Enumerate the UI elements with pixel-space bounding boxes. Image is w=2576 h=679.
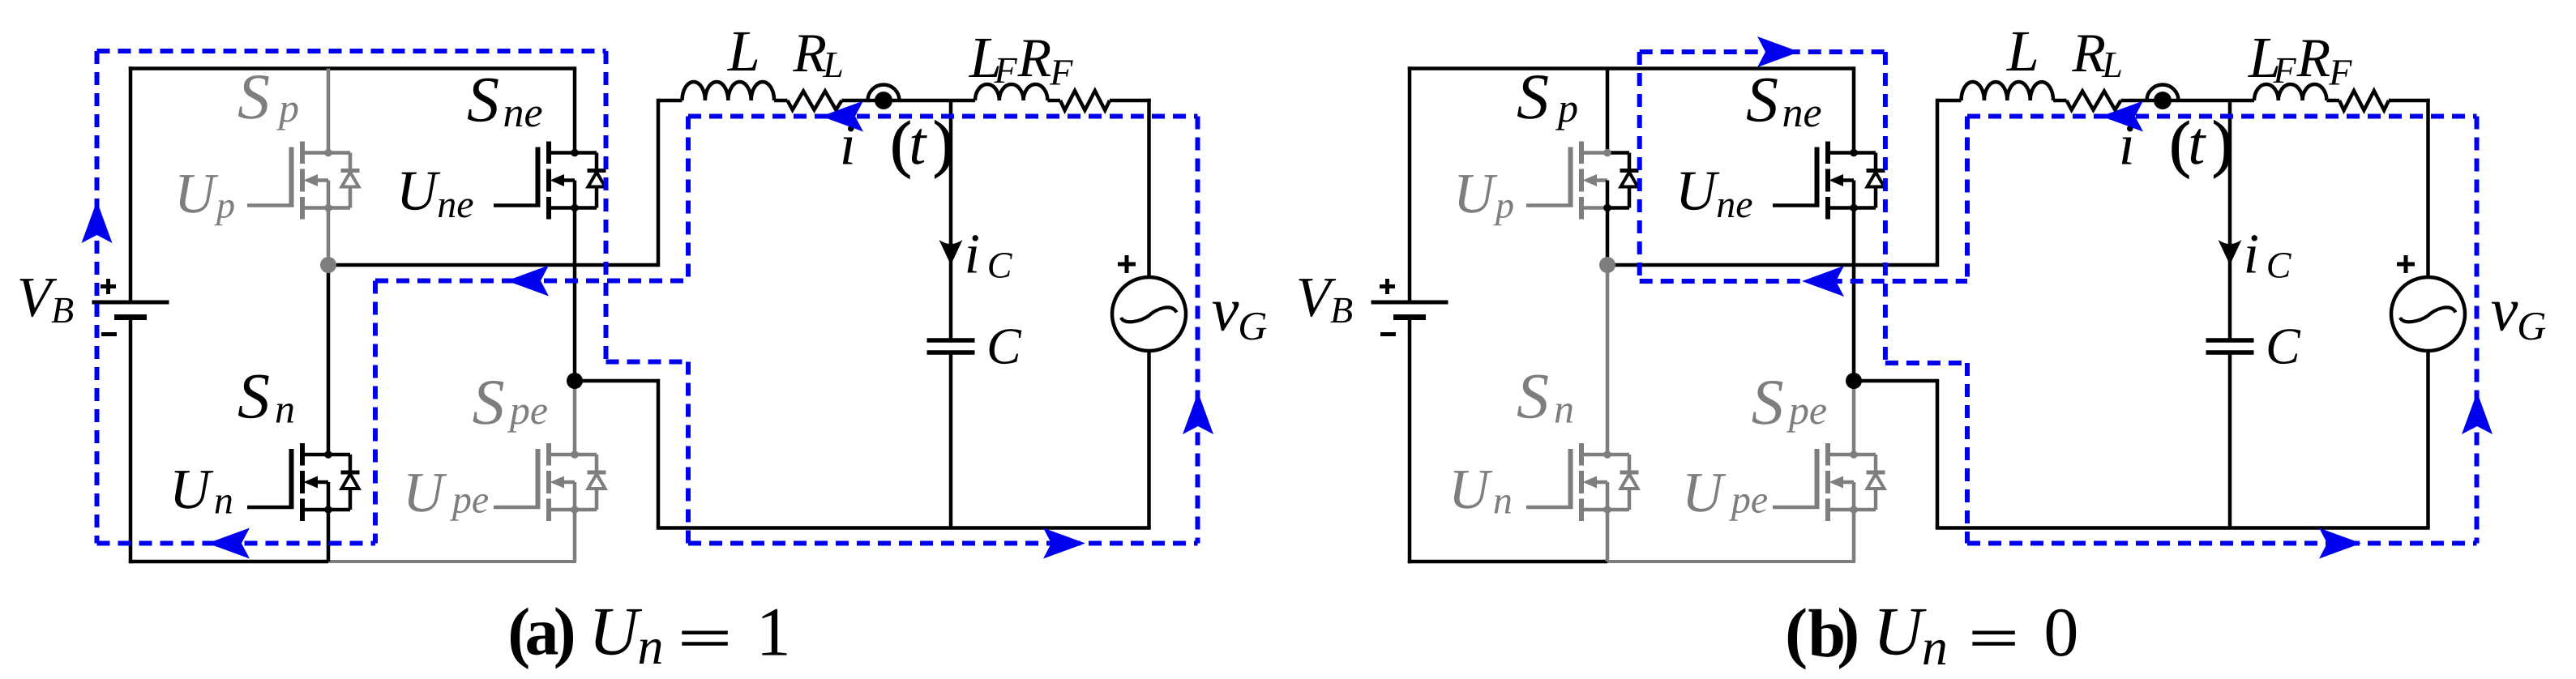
wire Sne source to node B [1852, 208, 1856, 382]
transistor Sne (on) [1773, 142, 1885, 220]
current path up vG [2475, 117, 2480, 544]
svg-text:n: n [638, 617, 664, 675]
svg-text:U: U [169, 459, 214, 521]
node A junction dot [1599, 257, 1615, 273]
current iC arrow [2219, 240, 2242, 265]
source vG [2391, 277, 2465, 351]
svg-text:F: F [2273, 49, 2297, 91]
wire [2053, 99, 2066, 103]
wire Spe source leg [573, 510, 577, 562]
svg-text:R: R [792, 22, 827, 83]
battery VB [1408, 66, 1412, 302]
current path bottom (to grid) [688, 541, 1198, 546]
wire Sne source to node B [573, 208, 577, 382]
svg-text:n: n [275, 386, 295, 432]
node B junction dot [567, 373, 583, 389]
arrow left under rail [2101, 101, 2143, 132]
capacitor C [927, 338, 975, 343]
arrow right bottom [1043, 528, 1085, 559]
battery VB [129, 66, 133, 302]
battery plus sign [101, 284, 116, 288]
svg-text:n: n [214, 479, 233, 522]
arrow up at vG [1183, 392, 1213, 434]
svg-text:ne: ne [437, 183, 473, 226]
svg-text:U: U [1453, 163, 1498, 225]
current path left along node A wire [375, 279, 688, 284]
current path bottom (to grid) [1967, 541, 2477, 546]
current sensor arc [868, 85, 900, 101]
svg-text:R: R [1017, 27, 1052, 88]
transistor Sne (on) [494, 142, 606, 220]
svg-text:B: B [51, 289, 74, 331]
wire Sn drain leg [1606, 265, 1610, 455]
svg-text:S: S [237, 361, 270, 433]
arrow left mid [1802, 266, 1844, 297]
svg-text:0: 0 [2043, 593, 2078, 671]
wire Spe drain leg [1852, 381, 1856, 455]
current path: battery branch (dashed) [95, 51, 100, 544]
svg-text:): ) [554, 595, 576, 670]
resistor RF [2339, 91, 2389, 110]
wire bridge bottom left [129, 560, 328, 564]
inductor LF [975, 84, 1047, 100]
wire top rail [1408, 66, 1855, 70]
wire [842, 99, 976, 103]
wire bridge bottom right (idle) [1607, 560, 1855, 563]
svg-text:S: S [1517, 361, 1549, 433]
wire Sn source leg [327, 510, 331, 562]
svg-text:n: n [1493, 479, 1513, 522]
current path down Sn [373, 281, 378, 544]
svg-text:L: L [2006, 19, 2039, 83]
caption (a) Un = 1 [507, 593, 791, 676]
current path up vG [1196, 117, 1200, 544]
arrow left mid [507, 266, 549, 297]
wire capacitor branch top [949, 100, 953, 340]
current path return under rail [688, 114, 1198, 119]
battery plus sign [1380, 284, 1395, 288]
svg-text:L: L [727, 19, 760, 83]
current iC arrow [939, 240, 963, 265]
svg-text:(: ( [1785, 596, 1808, 671]
svg-text:G: G [2517, 303, 2546, 348]
vG plus sign [1118, 263, 1136, 267]
svg-text:pe: pe [1729, 479, 1768, 522]
svg-text:t: t [2188, 109, 2206, 177]
wire Sp drain leg [1606, 69, 1610, 153]
wire [2326, 99, 2339, 103]
svg-text:C: C [2266, 318, 2301, 375]
svg-text:R: R [2296, 27, 2331, 88]
wire Sne drain leg [1852, 69, 1856, 153]
svg-text:i: i [965, 223, 980, 285]
arrow left bottom [208, 528, 250, 559]
current path top [97, 49, 606, 53]
svg-text:): ) [1837, 595, 1859, 670]
wire Spe drain leg [573, 381, 577, 455]
current path top freewheel [1640, 49, 1885, 54]
node B junction dot [1846, 373, 1862, 389]
svg-text:U: U [403, 462, 447, 524]
svg-text:v: v [2491, 275, 2518, 344]
svg-text:U: U [1873, 594, 1927, 670]
arrow up at battery [82, 201, 113, 243]
wire node B to bottom rail [1854, 379, 1937, 383]
inductor L [683, 82, 775, 100]
wire top rail [129, 66, 576, 70]
wire Sp source to node A [1606, 208, 1610, 266]
wire Sp drain leg [327, 69, 331, 153]
wire Sne drain leg [573, 69, 577, 153]
transistor Spe (off) [494, 443, 606, 521]
node A junction dot [320, 257, 336, 273]
arrow left under rail [821, 101, 863, 132]
wire Sp source to node A [327, 208, 331, 266]
transistor Sp (off) [247, 142, 360, 220]
svg-text:F: F [2328, 52, 2352, 93]
svg-text:L: L [822, 44, 844, 85]
resistor RL [2067, 92, 2121, 110]
svg-text:pe: pe [507, 387, 548, 433]
svg-text:p: p [276, 85, 299, 130]
arrow up at vG [2462, 392, 2493, 434]
wire [2121, 99, 2255, 103]
svg-text:B: B [1330, 289, 1353, 331]
capacitor C [2206, 338, 2254, 343]
wire output top rail [1937, 99, 1962, 103]
current path return under rail [1967, 114, 2477, 119]
svg-text:p: p [1493, 185, 1514, 226]
svg-text:pe: pe [450, 479, 489, 522]
wire capacitor branch bottom [2228, 352, 2232, 528]
svg-text:v: v [1212, 275, 1239, 344]
resistor RF [1060, 91, 1110, 110]
current path down to bottom [686, 362, 691, 544]
transistor Sn (off) [1526, 443, 1639, 521]
current sensor arc [2147, 85, 2179, 101]
svg-text:ne: ne [503, 90, 543, 136]
svg-text:ne: ne [1716, 183, 1752, 226]
svg-text:L: L [2101, 44, 2123, 85]
current path down to node A level [686, 117, 691, 281]
svg-text:S: S [1752, 367, 1784, 438]
current path jog right [606, 360, 689, 365]
svg-text:1: 1 [756, 593, 791, 671]
resistor RL [788, 92, 842, 110]
svg-text:t: t [909, 109, 927, 177]
svg-text:C: C [986, 318, 1022, 375]
svg-text:U: U [1682, 462, 1727, 524]
transistor Sn (on) [247, 443, 360, 521]
current path jog right [1885, 361, 1967, 365]
wire to vG [1110, 99, 1151, 103]
wire [1047, 99, 1060, 103]
arrow right bottom [2319, 528, 2361, 559]
vG plus sign [2397, 263, 2415, 267]
battery minus sign [1380, 332, 1396, 336]
wire node A to output [328, 263, 658, 267]
inductor LF [2254, 84, 2326, 100]
svg-text:U: U [396, 160, 441, 222]
wire output top rail [658, 99, 683, 103]
svg-text:C: C [987, 245, 1013, 286]
current path down Sne [1883, 52, 1888, 363]
current path bottom left [97, 541, 376, 546]
svg-text:U: U [1675, 160, 1720, 222]
current path down to node A level [1965, 117, 1970, 282]
wire output bottom rail [1936, 526, 2430, 530]
svg-text:F: F [1049, 52, 1073, 93]
svg-text:p: p [1555, 85, 1578, 130]
wire to vG [2389, 99, 2430, 103]
svg-text:S: S [473, 367, 505, 438]
transistor Spe (off) [1773, 443, 1885, 521]
current path left along node A wire [1640, 279, 1967, 284]
svg-text:p: p [214, 185, 235, 226]
wire [774, 99, 787, 103]
svg-text:S: S [1517, 62, 1549, 133]
wire vG to bottom rail [1147, 351, 1151, 528]
wire bridge bottom right (idle) [328, 560, 576, 563]
source vG [1112, 277, 1186, 351]
svg-text:n: n [1922, 618, 1948, 676]
svg-text:S: S [467, 65, 499, 136]
wire Spe source leg [1852, 510, 1856, 562]
svg-text:pe: pe [1787, 387, 1827, 433]
svg-text:U: U [1448, 459, 1493, 521]
inductor L [1962, 82, 2054, 100]
svg-text:S: S [1746, 65, 1778, 136]
current path down Sne [604, 51, 609, 362]
wire bridge bottom left [1408, 560, 1607, 564]
svg-text:U: U [588, 594, 642, 670]
battery minus sign [101, 332, 117, 336]
current sensor dot [2154, 92, 2172, 109]
svg-text:n: n [1554, 386, 1574, 432]
current path up Sp (dashed) [1637, 52, 1642, 281]
svg-text:i: i [2244, 223, 2259, 285]
current sensor dot [875, 92, 892, 109]
arrow right top [1757, 36, 1799, 67]
wire node A to output [1607, 263, 1937, 267]
wire output bottom rail [657, 526, 1151, 530]
transistor Sp (diode conducting) [1526, 142, 1639, 220]
wire vG to bottom rail [2426, 351, 2430, 528]
svg-text:S: S [237, 62, 270, 133]
svg-text:G: G [1238, 303, 1267, 348]
wire capacitor branch bottom [949, 352, 953, 528]
wire capacitor branch top [2228, 100, 2232, 340]
svg-text:F: F [994, 49, 1018, 91]
current path down to bottom [1965, 363, 1970, 544]
wire Sn source leg [1606, 510, 1610, 562]
svg-text:ne: ne [1782, 90, 1822, 136]
wire Sn drain leg [327, 265, 331, 455]
caption (b) Un = 0 [1785, 593, 2078, 676]
svg-text:R: R [2071, 22, 2106, 83]
svg-text:U: U [174, 163, 219, 225]
svg-text:C: C [2266, 245, 2292, 286]
wire node B to bottom rail [575, 379, 658, 383]
